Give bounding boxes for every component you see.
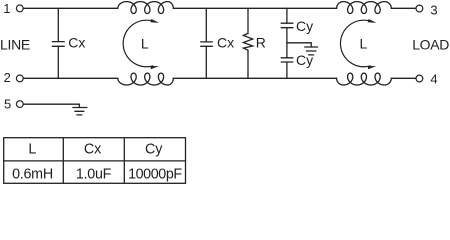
svg-text:1: 1 [3,1,10,16]
svg-text:L: L [360,36,368,52]
svg-text:Cx: Cx [84,141,101,157]
ground chassis [73,108,87,115]
wire bottom-right [391,77,416,79]
table border [4,138,186,184]
choke L2 bottom winding [337,73,392,85]
table column divider 2 [123,138,125,184]
resistor R [243,8,266,78]
svg-text:Cy: Cy [145,141,163,157]
wire terminal 5 to ground [23,104,79,107]
svg-text:Cx: Cx [68,35,85,51]
wire top-left [23,7,118,9]
svg-text:LINE: LINE [0,36,30,52]
svg-text:10000pF: 10000pF [128,167,182,183]
svg-text:Cy: Cy [296,52,313,68]
terminal 3 [416,2,438,17]
capacitor Cx2 [201,8,234,78]
capacitor Cx1 [52,8,85,78]
terminal 2 [4,70,24,85]
table row divider [4,160,186,162]
svg-text:Cx: Cx [217,35,234,51]
svg-text:Cy: Cy [296,18,313,34]
svg-text:2: 2 [4,70,11,85]
choke L1 top winding [118,2,174,14]
choke L1 coupling arrow [123,19,159,69]
terminal 4 [416,72,438,87]
capacitor Cy top [281,8,313,58]
svg-text:1.0uF: 1.0uF [76,167,112,183]
svg-text:3: 3 [430,2,437,17]
wire Cy midpoint to ground [287,43,311,47]
wire top-right [391,7,416,9]
ground at Cy midpoint [305,47,318,55]
choke L2 top winding [337,2,392,14]
terminal 5 [4,97,23,112]
wire bottom-left [23,77,118,79]
svg-text:L: L [141,36,149,52]
svg-text:5: 5 [4,97,11,112]
svg-text:L: L [28,141,36,157]
wire top-middle [173,7,336,9]
svg-text:R: R [256,35,266,51]
svg-text:LOAD: LOAD [412,36,449,52]
svg-text:4: 4 [430,72,437,87]
terminal 1 [3,1,23,16]
svg-text:0.6mH: 0.6mH [12,167,53,183]
wire bottom-middle [173,77,336,79]
capacitor Cy bottom [281,52,313,79]
choke L1 bottom winding [118,73,174,85]
choke L2 coupling arrow [340,19,376,69]
table column divider 1 [62,138,64,184]
